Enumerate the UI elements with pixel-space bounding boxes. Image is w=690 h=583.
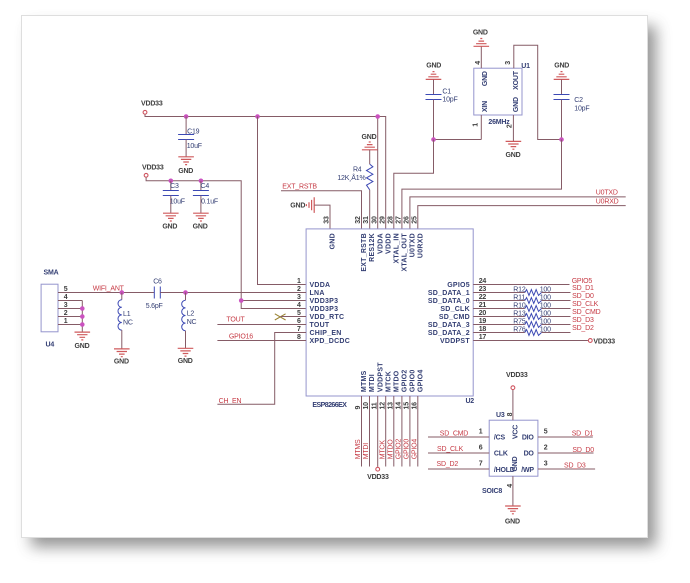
- svg-text:21: 21: [479, 302, 487, 309]
- svg-text:VDD33: VDD33: [593, 338, 615, 345]
- wire U1 pin 3 XOUT loop: [514, 45, 562, 139]
- wire stub bottom pin 15: [409, 396, 411, 467]
- svg-text:24: 24: [479, 278, 487, 285]
- wire branch to pin 30: [377, 117, 379, 229]
- net label MTDO: [387, 439, 394, 460]
- resistor R4 12K: [337, 150, 373, 229]
- net label WIFI_ANT: [93, 286, 125, 293]
- svg-text:20: 20: [479, 310, 487, 317]
- svg-text:VDD_RTC: VDD_RTC: [310, 314, 345, 321]
- svg-text:VDDPST: VDDPST: [377, 362, 384, 392]
- wire VDD33 rail 2 to chip pins 3/4: [146, 178, 306, 309]
- svg-text:1: 1: [479, 428, 483, 435]
- svg-text:GND: GND: [290, 203, 305, 210]
- wire stub bottom pin 10: [369, 396, 371, 467]
- svg-text:GPIO4: GPIO4: [411, 439, 418, 460]
- U2 right pin 24 GPIO5: [447, 278, 486, 289]
- svg-text:VDD33: VDD33: [506, 372, 528, 379]
- svg-text:GPIO4: GPIO4: [417, 369, 424, 392]
- svg-text:SD_DATA_3: SD_DATA_3: [428, 322, 470, 329]
- ground above C1: [426, 63, 442, 80]
- svg-text:GND: GND: [505, 518, 520, 525]
- wire U0TXD from pin 26: [410, 197, 626, 229]
- svg-text:VDD33: VDD33: [142, 165, 164, 172]
- U2 left pin 2 LNA: [297, 286, 325, 297]
- svg-text:NC: NC: [187, 319, 197, 326]
- U2 right pin 20 SD_CMD: [439, 310, 487, 321]
- svg-text:32: 32: [355, 216, 362, 224]
- capacitor C2 10pF: [554, 80, 590, 140]
- svg-text:U0RXD: U0RXD: [417, 233, 424, 258]
- svg-text:4: 4: [297, 302, 301, 309]
- U2 right pin 19 SD_DATA_3: [428, 318, 487, 329]
- net label SD_D1: [572, 285, 594, 292]
- svg-text:U2: U2: [465, 398, 474, 405]
- wire EXT_RSTB to pin 32: [281, 191, 362, 229]
- svg-text:7: 7: [297, 326, 301, 333]
- svg-text:/CS: /CS: [494, 435, 506, 442]
- svg-text:22: 22: [479, 294, 487, 301]
- svg-text:C1: C1: [442, 89, 451, 96]
- resistor R75 100: [473, 319, 570, 328]
- svg-text:1: 1: [473, 123, 480, 127]
- wire U3 right pin 2: [538, 444, 594, 453]
- svg-text:RES12K: RES12K: [369, 233, 376, 262]
- junction C4: [199, 179, 204, 184]
- svg-text:MTMS: MTMS: [361, 370, 368, 392]
- junction SMA pin 2: [80, 314, 85, 319]
- svg-text:SD_CMD: SD_CMD: [439, 314, 470, 321]
- svg-text:TOUT: TOUT: [310, 322, 330, 329]
- U1 pin 1 number: [473, 123, 480, 127]
- capacitor C1 10pF: [426, 80, 458, 140]
- net label SD_D3: [572, 317, 594, 324]
- svg-text:MTDI: MTDI: [369, 374, 376, 392]
- svg-text:7: 7: [479, 460, 483, 467]
- wire SMA pins 4-1 common: [58, 301, 82, 333]
- net label GPIO0: [404, 439, 411, 460]
- U2 bottom pin 15 GPIO0: [404, 369, 417, 409]
- U2 bottom pin 16 GPIO4: [411, 369, 424, 409]
- svg-text:U0TXD: U0TXD: [596, 190, 618, 197]
- svg-text:XTAL_IN: XTAL_IN: [393, 233, 400, 263]
- junction L1: [120, 290, 125, 295]
- svg-text:CHIP_EN: CHIP_EN: [310, 330, 342, 337]
- svg-text:5: 5: [297, 310, 301, 317]
- svg-text:SD_D2: SD_D2: [437, 461, 459, 468]
- U4 pin 1: [64, 318, 68, 325]
- svg-text:R13: R13: [513, 311, 526, 318]
- wire stub bottom pin 14: [401, 396, 403, 467]
- wire VDDPST pin 17 to VDD33: [473, 340, 588, 342]
- U2 right pin 17 VDDPST: [440, 334, 486, 345]
- svg-text:R76: R76: [513, 327, 526, 334]
- U1 pin 4 number: [475, 61, 482, 65]
- wire U1 pin 2 to ground: [512, 115, 514, 141]
- wire U0RXD from pin 25: [418, 206, 626, 229]
- ground below C4: [193, 213, 209, 231]
- net label GPIO4: [411, 439, 418, 460]
- svg-text:23: 23: [479, 286, 487, 293]
- svg-text:GND: GND: [114, 358, 129, 365]
- svg-text:2: 2: [544, 444, 548, 451]
- svg-text:SD_D3: SD_D3: [564, 462, 586, 469]
- svg-text:100: 100: [540, 303, 551, 310]
- net label SD_CMD: [572, 309, 601, 316]
- net label GPIO16: [229, 334, 253, 341]
- resistor R10 100: [473, 303, 570, 312]
- U2 top pin 27 XTAL_OUT: [396, 216, 409, 272]
- svg-text:SD_CLK: SD_CLK: [437, 446, 464, 453]
- svg-text:SD_CMD: SD_CMD: [440, 431, 469, 438]
- U2 top pin 25 U0RXD: [411, 216, 424, 258]
- wire C6 to chip pin 2 LNA: [160, 292, 306, 294]
- inductor L2 NC: [182, 293, 197, 349]
- svg-text:SD_D0: SD_D0: [572, 447, 594, 454]
- svg-text:U4: U4: [46, 342, 55, 349]
- wire U1 pin 4 to ground: [480, 46, 482, 68]
- svg-text:18: 18: [479, 326, 487, 333]
- svg-text:SD_CLK: SD_CLK: [440, 306, 470, 313]
- svg-text:GND: GND: [178, 358, 193, 365]
- svg-text:GPIO16: GPIO16: [229, 334, 253, 341]
- ground below U3: [505, 506, 521, 525]
- svg-text:30: 30: [371, 216, 378, 224]
- capacitor C6 5.6pF: [146, 279, 163, 310]
- svg-text:SD_D3: SD_D3: [572, 317, 594, 324]
- U1 pin 2 number: [507, 124, 514, 128]
- net label SD_CLK: [572, 301, 599, 308]
- svg-text:3: 3: [544, 460, 548, 467]
- svg-text:VDD3P3: VDD3P3: [310, 298, 339, 305]
- inductor L1 NC: [118, 293, 133, 349]
- net label SD_D0: [572, 447, 594, 454]
- svg-text:/WP: /WP: [521, 467, 534, 474]
- resistor R12 100: [473, 287, 570, 296]
- net label SD_D0: [572, 293, 594, 300]
- net label MTDI: [363, 443, 370, 460]
- U2 right pin 21 SD_CLK: [440, 302, 486, 313]
- svg-text:SD_DATA_2: SD_DATA_2: [428, 330, 470, 337]
- junction SMA pin 1: [80, 322, 85, 327]
- U3 pin 4 number: [507, 484, 514, 488]
- svg-text:CLK: CLK: [494, 451, 508, 458]
- svg-text:6: 6: [479, 444, 483, 451]
- svg-text:3: 3: [505, 61, 512, 65]
- svg-text:17: 17: [479, 334, 487, 341]
- U4 pin 2: [64, 310, 68, 317]
- net label U0TXD: [596, 190, 618, 197]
- svg-text:2: 2: [507, 124, 514, 128]
- wire U3 right pin 5: [538, 428, 593, 437]
- svg-text:SD_D1: SD_D1: [572, 285, 594, 292]
- wire stub bottom pin 16: [417, 396, 419, 467]
- svg-text:U1: U1: [521, 63, 530, 70]
- svg-text:3: 3: [64, 302, 68, 309]
- svg-text:EXT_RSTB: EXT_RSTB: [361, 233, 368, 272]
- net label SD_D3: [564, 462, 586, 469]
- svg-text:R10: R10: [513, 303, 526, 310]
- net label CH_EN: [219, 398, 242, 405]
- U4 pin 3: [64, 302, 68, 309]
- wire GPIO16 to pin 8: [217, 340, 306, 342]
- svg-text:5: 5: [64, 286, 68, 293]
- svg-text:VDDPST: VDDPST: [440, 338, 470, 345]
- svg-text:U0RXD: U0RXD: [596, 198, 619, 205]
- U2 top pin 33 GND: [324, 216, 337, 249]
- power port VDD33 (above U3): [506, 372, 528, 390]
- U2 top pin 30 VDDA: [371, 216, 384, 254]
- svg-text:GPIO0: GPIO0: [410, 369, 417, 392]
- U2 left pin 6 TOUT: [297, 318, 330, 329]
- svg-text:GND: GND: [330, 233, 337, 249]
- U2 bottom pin 9 MTMS: [355, 370, 368, 409]
- no-connect X on pin 5: [275, 314, 286, 320]
- svg-text:GND: GND: [178, 168, 193, 175]
- svg-text:GND: GND: [513, 97, 520, 112]
- wire VDDA feed to pin 1: [258, 117, 307, 285]
- svg-text:EXT_RSTB: EXT_RSTB: [282, 183, 317, 190]
- ground above U1 pin 4: [473, 30, 489, 47]
- junction VDDA branch: [255, 114, 260, 119]
- U2 left pin 3 VDD3P3: [297, 294, 338, 305]
- resistor R76 100: [473, 327, 570, 336]
- net label U0RXD: [596, 198, 619, 205]
- svg-text:VDDA: VDDA: [310, 282, 331, 289]
- svg-text:33: 33: [324, 216, 331, 224]
- svg-text:MTDI: MTDI: [363, 443, 370, 460]
- net label MTMS: [355, 439, 362, 459]
- power port VDD33 (second rail): [142, 165, 164, 178]
- svg-text:10pF: 10pF: [442, 96, 457, 103]
- wire U3 right pin 3: [538, 460, 595, 469]
- net label EXT_RSTB: [282, 183, 317, 190]
- capacitor C19 10uF: [178, 117, 202, 157]
- svg-text:DO: DO: [524, 451, 535, 458]
- svg-text:19: 19: [479, 318, 487, 325]
- svg-text:2: 2: [64, 310, 68, 317]
- svg-text:VDD33: VDD33: [141, 101, 163, 108]
- svg-text:SOIC8: SOIC8: [482, 488, 502, 495]
- svg-text:SD_D0: SD_D0: [572, 293, 594, 300]
- net label GPIO2: [396, 439, 403, 460]
- junction pin30 branch: [375, 114, 380, 119]
- svg-text:GND: GND: [473, 30, 488, 37]
- U2 bottom pin 10 MTDI: [363, 374, 376, 410]
- svg-text:L1: L1: [123, 311, 131, 318]
- U2 top pin 31 RES12K: [363, 216, 376, 262]
- svg-text:R4: R4: [353, 166, 362, 173]
- svg-text:100: 100: [540, 319, 551, 326]
- svg-text:C2: C2: [574, 97, 583, 104]
- junction SMA pin 3: [80, 306, 85, 311]
- svg-text:10uF: 10uF: [187, 143, 202, 150]
- U4 pin 5: [64, 286, 68, 293]
- power port VDD33 (right): [588, 338, 615, 345]
- U2 right pin 22 SD_DATA_0: [428, 294, 487, 305]
- svg-text:3: 3: [297, 294, 301, 301]
- U1 pin 3 number: [505, 61, 512, 65]
- svg-text:VDD33: VDD33: [367, 474, 389, 481]
- svg-text:U3: U3: [496, 412, 505, 419]
- ground below SMA: [75, 332, 91, 350]
- svg-text:C3: C3: [170, 183, 179, 190]
- U3 pin 8 number: [507, 412, 514, 416]
- svg-text:100: 100: [540, 327, 551, 334]
- junction L2: [183, 290, 188, 295]
- svg-text:GPIO2: GPIO2: [402, 369, 409, 392]
- U2 left pin 1 VDDA: [297, 278, 330, 289]
- svg-text:GPIO0: GPIO0: [404, 439, 411, 460]
- capacitor C3 10uF: [163, 181, 185, 213]
- svg-text:GPIO5: GPIO5: [447, 282, 470, 289]
- svg-text:29: 29: [379, 216, 386, 224]
- wire XTAL_OUT to pin 27: [402, 140, 562, 229]
- svg-text:XTAL_OUT: XTAL_OUT: [402, 233, 409, 272]
- svg-text:XPD_DCDC: XPD_DCDC: [310, 338, 351, 345]
- junction XOUT/C2: [559, 137, 564, 142]
- junction XIN/C1: [431, 137, 436, 142]
- svg-text:GND: GND: [512, 456, 519, 471]
- net label SD_D1: [572, 431, 594, 438]
- wire stub bottom pin 12: [385, 396, 387, 467]
- svg-text:5: 5: [544, 428, 548, 435]
- net label SD_CLK: [437, 446, 464, 453]
- svg-text:XOUT: XOUT: [513, 70, 520, 90]
- svg-text:SMA: SMA: [44, 270, 59, 277]
- svg-text:ESP8266EX: ESP8266EX: [312, 402, 347, 409]
- svg-text:SD_D1: SD_D1: [572, 431, 594, 438]
- svg-text:VDD3P3: VDD3P3: [310, 306, 339, 313]
- svg-text:28: 28: [387, 216, 394, 224]
- svg-text:GND: GND: [362, 134, 377, 141]
- wire U3 left pin 1: [428, 428, 489, 437]
- net label SD_D2: [437, 461, 459, 468]
- wire WIFI_ANT to C6: [58, 292, 154, 294]
- wire TOUT to pin 6: [217, 324, 306, 326]
- wire GND to pin 33: [314, 205, 330, 229]
- U2 bottom pin 11 VDDPST: [371, 362, 384, 410]
- svg-text:SD_D2: SD_D2: [572, 325, 594, 332]
- svg-text:10pF: 10pF: [574, 105, 589, 112]
- svg-text:GND: GND: [162, 224, 177, 231]
- U2 top pin 32 EXT_RSTB: [355, 216, 368, 272]
- ground above C2: [554, 63, 570, 80]
- power port VDD33 (top rail): [141, 101, 163, 115]
- svg-text:SD_CLK: SD_CLK: [572, 301, 599, 308]
- ic U3 SOIC8 body: [482, 412, 538, 495]
- svg-text:VDDA: VDDA: [377, 233, 384, 254]
- U2 bottom pin 14 GPIO2: [396, 369, 409, 409]
- svg-text:LNA: LNA: [310, 290, 325, 297]
- wire GPIO5 from pin 24: [473, 284, 569, 286]
- wire U3 VCC to VDD33: [512, 390, 514, 420]
- connector U4 SMA: [41, 270, 59, 349]
- svg-text:MTDO: MTDO: [393, 370, 400, 392]
- svg-text:VDDD: VDDD: [385, 233, 392, 254]
- U2 left pin 7 CHIP_EN: [297, 326, 342, 337]
- junction C3: [169, 179, 174, 184]
- svg-text:GND: GND: [426, 63, 441, 70]
- svg-text:SD_DATA_1: SD_DATA_1: [428, 290, 470, 297]
- svg-text:100: 100: [540, 287, 551, 294]
- ground at chip pin 33: [290, 197, 314, 213]
- U2 top pin 26 U0TXD: [404, 216, 417, 257]
- svg-text:10uF: 10uF: [170, 199, 185, 206]
- resistor R11 100: [473, 295, 570, 304]
- ground below L1: [114, 349, 130, 366]
- svg-text:GPIO2: GPIO2: [396, 439, 403, 460]
- svg-text:1: 1: [64, 318, 68, 325]
- junction pin3 branch: [239, 298, 244, 303]
- svg-text:12K¸Å1%: 12K¸Å1%: [337, 173, 365, 182]
- wire U3 left pin 6: [428, 444, 489, 453]
- wire U1 pin 1 XIN: [434, 115, 482, 140]
- net label MTCK: [379, 440, 386, 460]
- U2 right pin 23 SD_DATA_1: [428, 286, 487, 297]
- net label GPIO5: [572, 278, 593, 285]
- wire U3 left pin 7: [428, 460, 489, 469]
- svg-text:4: 4: [64, 294, 68, 301]
- svg-text:GND: GND: [193, 224, 208, 231]
- ground above R4: [362, 134, 378, 150]
- wire branch to pin 3: [241, 300, 306, 302]
- svg-text:GND: GND: [482, 71, 489, 86]
- svg-text:U0TXD: U0TXD: [410, 233, 417, 257]
- wire XTAL_IN to pin 28: [394, 140, 434, 229]
- svg-text:MTCK: MTCK: [385, 371, 392, 392]
- U2 left pin 5 VDD_RTC: [297, 310, 344, 321]
- wire VDD33 rail to chip pins 30/29: [145, 115, 386, 229]
- svg-text:GPIO5: GPIO5: [572, 278, 593, 285]
- U4 pin 4: [64, 294, 68, 301]
- svg-text:SD_DATA_0: SD_DATA_0: [428, 298, 470, 305]
- op-amp U2 ESP8266EX body: [306, 229, 474, 409]
- svg-text:100: 100: [540, 295, 551, 302]
- svg-text:0.1uF: 0.1uF: [201, 199, 218, 206]
- net label TOUT: [226, 317, 245, 324]
- svg-text:1: 1: [297, 278, 301, 285]
- svg-text:DIO: DIO: [522, 435, 535, 442]
- svg-text:C6: C6: [153, 279, 162, 286]
- capacitor C4 0.1uF: [193, 181, 218, 213]
- svg-text:C4: C4: [201, 183, 210, 190]
- svg-text:C19: C19: [187, 128, 200, 135]
- U2 right pin 18 SD_DATA_2: [428, 326, 487, 337]
- svg-text:MTMS: MTMS: [355, 439, 362, 459]
- svg-text:L2: L2: [187, 311, 195, 318]
- svg-text:VCC: VCC: [512, 425, 519, 439]
- svg-text:GND: GND: [554, 63, 569, 70]
- svg-text:XIN: XIN: [482, 101, 489, 112]
- svg-text:2: 2: [297, 286, 301, 293]
- U2 bottom pin 13 MTDO: [387, 370, 400, 409]
- wire stub bottom pin 13: [393, 396, 395, 467]
- wire stub pin 5 VDD_RTC: [281, 316, 307, 318]
- wire CH_EN to pin 7: [217, 333, 306, 405]
- svg-text:26: 26: [404, 216, 411, 224]
- ground below L2: [178, 348, 194, 365]
- net label SD_D2: [572, 325, 594, 332]
- svg-text:31: 31: [363, 216, 370, 224]
- svg-text:100: 100: [540, 311, 551, 318]
- U2 left pin 4 VDD3P3: [297, 302, 338, 313]
- net label SD_CMD: [440, 431, 469, 438]
- svg-text:6: 6: [297, 318, 301, 325]
- junction C19: [184, 114, 189, 119]
- U2 top pin 28 XTAL_IN: [387, 216, 400, 263]
- ground below U1 pin 2: [506, 141, 522, 159]
